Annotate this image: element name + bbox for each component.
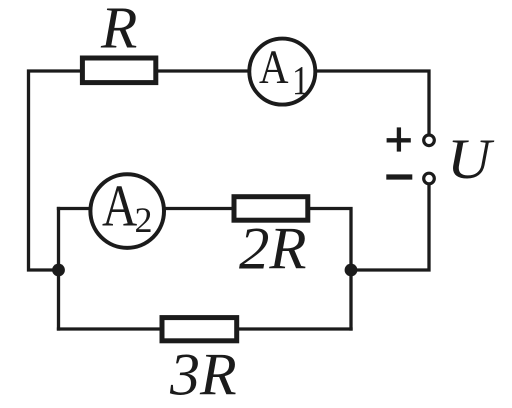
svg-text:2: 2 (135, 200, 153, 240)
terminal + circle (424, 135, 435, 146)
svg-text:A: A (102, 173, 138, 239)
svg-text:2R: 2R (239, 216, 307, 283)
junction dot right (345, 264, 358, 277)
svg-text:A: A (259, 41, 289, 94)
svg-text:U: U (447, 128, 495, 191)
wire: bottom branch (59, 327, 352, 330)
wire: middle branch to A2 (59, 207, 91, 210)
wire: left outer vertical and top-left horizontal (29, 71, 80, 270)
resistor 3R (162, 318, 237, 341)
wire: 2R to right mid vertical (310, 209, 351, 330)
wire: A2 to 2R (164, 207, 232, 210)
wire: middle branch left vertical (57, 209, 60, 330)
svg-text:3R: 3R (169, 342, 237, 408)
ammeter A2 (90, 173, 164, 248)
resistor R (82, 58, 155, 83)
ammeter A1 (249, 39, 315, 105)
resistor 2R (234, 197, 308, 221)
svg-text:1: 1 (292, 57, 309, 103)
svg-text:R: R (100, 0, 137, 61)
wire: A1 to top-right corner down to + terminal (315, 71, 429, 134)
plus sign (387, 127, 411, 151)
terminal - circle (424, 173, 435, 184)
minus sign (386, 174, 412, 179)
wire: from - terminal down and left to right junction (351, 185, 429, 270)
wire: top branch R to A1 (158, 69, 249, 72)
junction dot left (52, 264, 65, 277)
